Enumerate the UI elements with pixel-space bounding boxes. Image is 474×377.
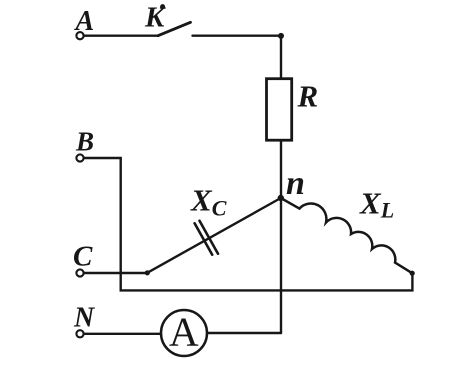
svg-text:K: K — [144, 2, 166, 34]
capacitor XC diagonal wire — [147, 198, 280, 273]
wire corner down to resistor — [280, 36, 282, 79]
node top corner — [278, 33, 284, 39]
junction dot C diagonal — [145, 270, 150, 275]
capacitor XC plate 2 — [200, 221, 219, 254]
inductor XL coil — [281, 198, 412, 273]
capacitor XC plate 1 — [195, 223, 213, 254]
svg-text:n: n — [286, 165, 305, 202]
svg-text:A: A — [169, 309, 199, 355]
inductor end dot — [410, 271, 415, 276]
svg-text:XL: XL — [359, 185, 394, 222]
svg-text:A: A — [74, 6, 95, 37]
terminal B — [76, 154, 83, 161]
wire C to diagonal start — [85, 272, 148, 274]
svg-text:R: R — [297, 79, 319, 114]
wire resistor to node n and down — [280, 140, 282, 333]
node n junction dot — [278, 195, 284, 201]
switch K dot — [160, 4, 165, 9]
wire switch to corner — [193, 35, 282, 37]
wire B down and bottom rail to inductor — [85, 158, 413, 290]
resistor R — [267, 79, 292, 141]
wire A to switch — [85, 35, 159, 37]
terminal N — [76, 330, 83, 337]
wire ammeter to neutral riser — [207, 332, 281, 334]
svg-text:N: N — [73, 303, 96, 334]
svg-text:B: B — [75, 127, 94, 157]
svg-text:C: C — [73, 241, 93, 273]
ammeter A body — [161, 310, 207, 356]
wire N to ammeter — [85, 333, 162, 335]
terminal C — [76, 269, 83, 276]
terminal A — [76, 32, 83, 39]
svg-text:XC: XC — [190, 182, 227, 220]
switch K blade — [158, 22, 191, 35]
